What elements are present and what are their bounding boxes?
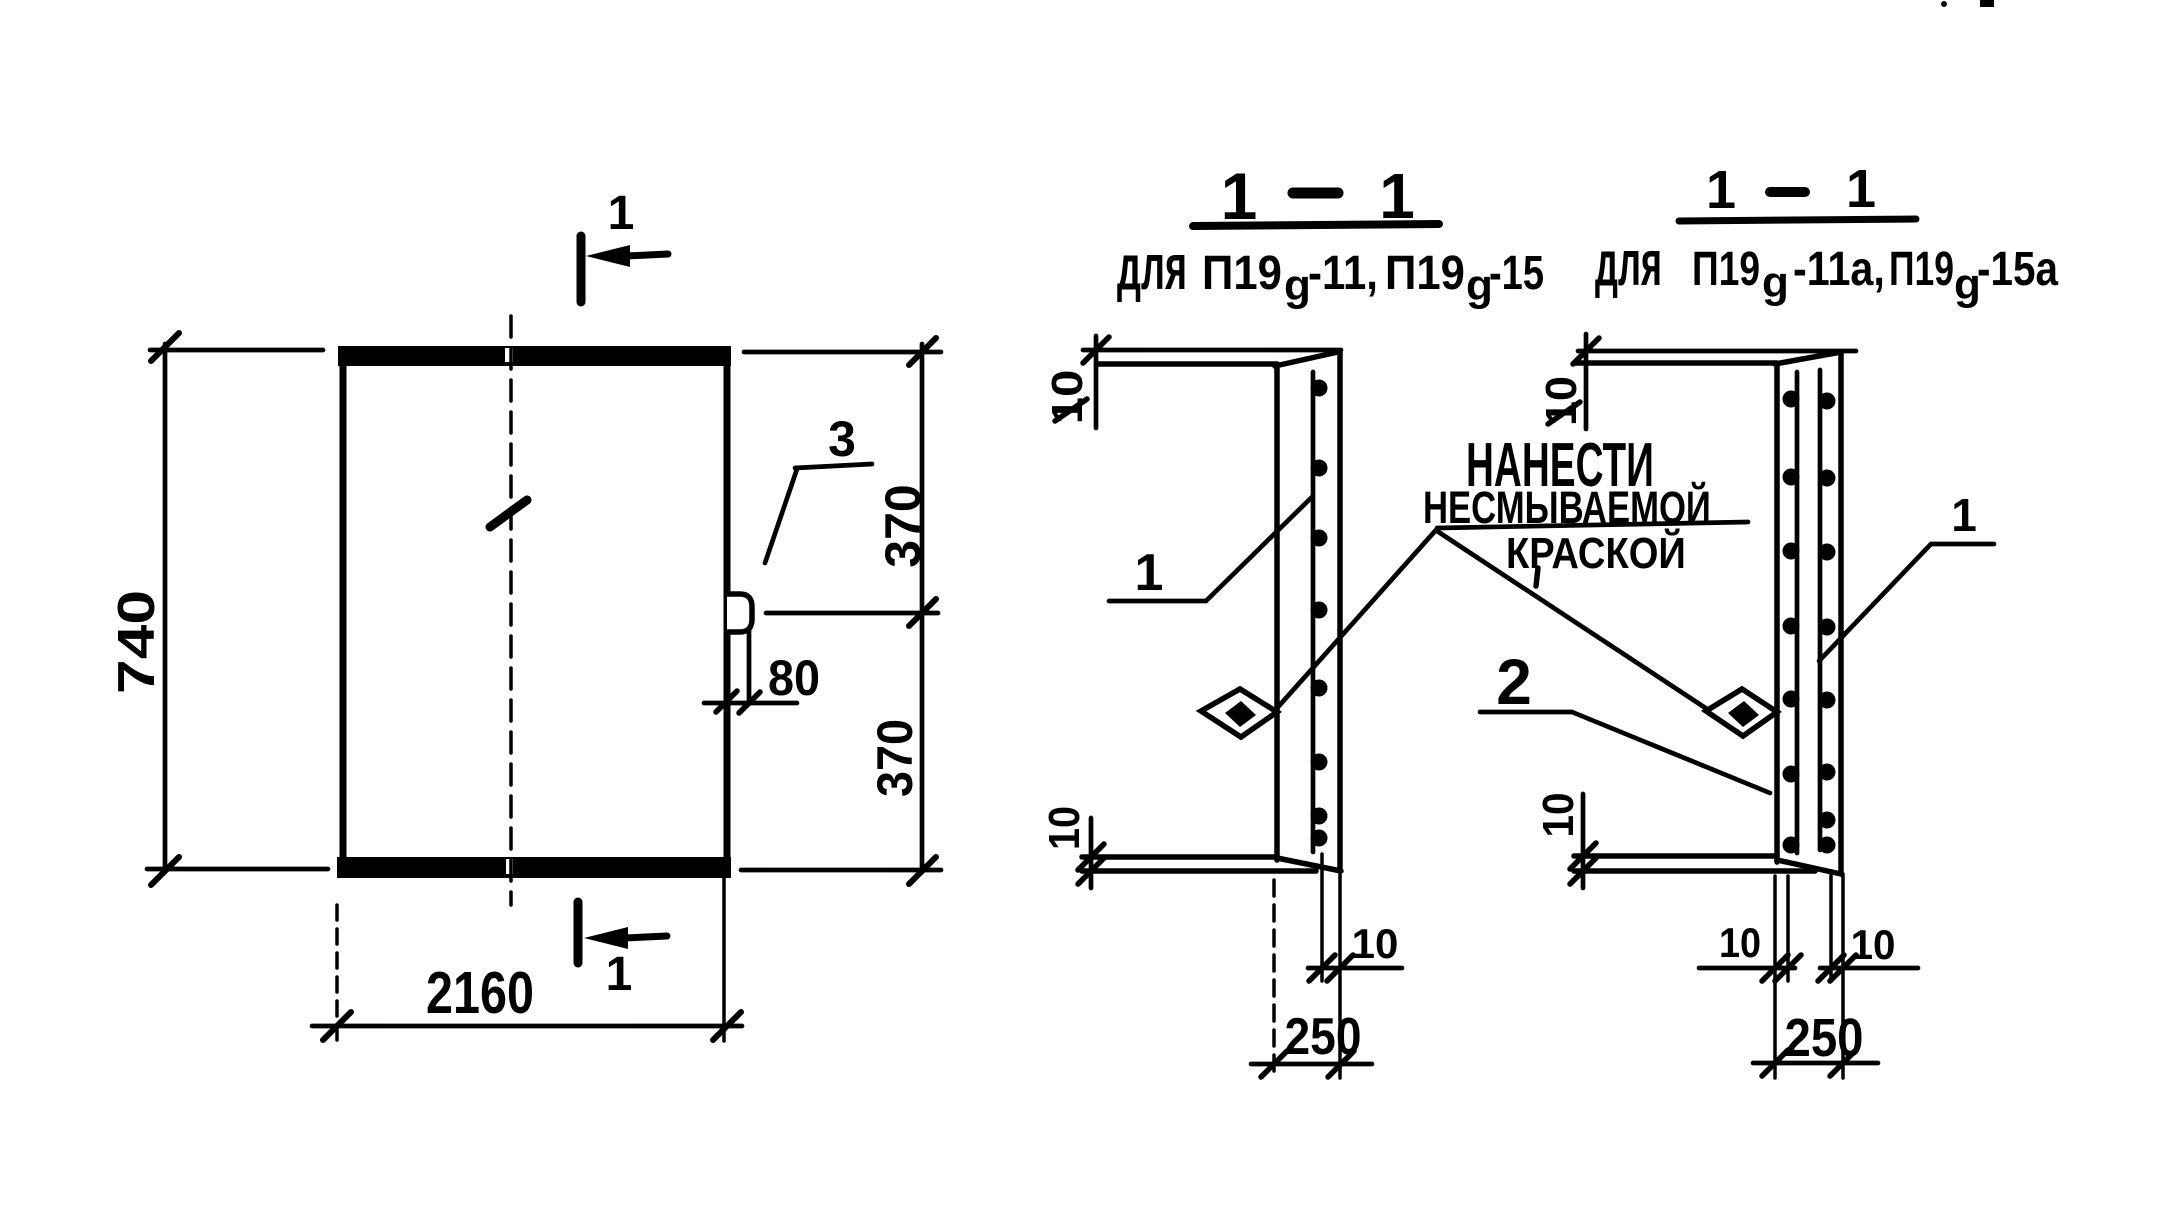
svg-text:80: 80 [768,651,820,707]
sec1 dim 10 bottom: arrow right [1327,955,1353,981]
sec1 dim 10 bottom-left: arrow lower [1078,858,1104,884]
dimension 2160 arrow left [323,1012,351,1040]
dimension 740 arrow bottom [151,857,179,885]
sec2 dim 250: arrow right [1830,1050,1856,1076]
svg-text:1: 1 [1846,159,1876,219]
dimension 370 middle extension [766,611,938,616]
dimension 80 tick line [704,701,797,706]
section mark 1 bottom: arrow [584,927,667,949]
sec2 dim 10 bottom-right pair: arrow a [1818,955,1844,981]
sec2 top dimension line [1578,349,1856,354]
svg-text:740: 740 [108,590,166,694]
section header 1-1 (left): underline [1193,224,1439,226]
note stray tick below КРАСКОЙ [1536,568,1538,586]
svg-text:КРАСКОЙ: КРАСКОЙ [1506,528,1686,577]
dimension 80 arrow left [716,691,737,712]
sec1 label 1: leader diagonal [1206,497,1312,601]
sec1 web bottom edge [1277,858,1341,871]
svg-text:g: g [1284,261,1311,310]
svg-text:для: для [1595,228,1662,299]
svg-text:370: 370 [868,719,924,797]
svg-text:П19: П19 [1385,245,1465,299]
note leader to left diamond [1278,530,1436,707]
sec2 plate top edge [1775,352,1841,364]
sec2 rebar-left extension below [1786,876,1790,981]
sec2 dim 10 bottom-left: arrow upper [1570,843,1596,869]
svg-text:П19: П19 [1202,245,1282,299]
sec2 rebar line left [1795,372,1800,853]
dimension 370 top extension [744,350,941,355]
svg-text:-11а,: -11а, [1793,242,1885,296]
sec2 bottom plate upper line [1574,853,1775,859]
sec2 web-left extension below [1773,876,1777,1078]
dimension 370 arrow middle [909,599,936,626]
sec1 dim 10 bottom-left: extension line [1089,818,1094,888]
svg-text:10: 10 [1042,370,1091,425]
section mark 1 bottom: cut line [574,902,583,963]
svg-text:2160: 2160 [426,961,534,1027]
sec1 rebar line [1311,372,1316,852]
sec1 dim 10 bottom: line [1308,966,1402,971]
sec2 web-right extension below [1841,874,1845,1078]
sec2 web right line [1838,352,1844,874]
svg-text:П19: П19 [1889,242,1954,295]
dimension 740 top extension [150,348,323,353]
svg-text:10: 10 [1851,921,1896,968]
dimension 370 bottom extension [741,868,941,873]
svg-text:1: 1 [1706,160,1736,220]
sec2 dim 10 bottom-right pair: arrow b [1830,955,1856,981]
sec2 top plate lower line [1574,360,1777,366]
section header subtitle (right): для П19д-11а, П19д-15а [1595,228,2058,309]
svg-text:П19: П19 [1692,243,1760,297]
dimension 80 arrow right [739,692,760,713]
sec1 rebar extension below [1320,854,1324,981]
svg-text:g: g [1762,258,1789,307]
sec2 rebar-right extension below [1829,874,1833,981]
sec2 dim 10 top-left: arrow lower [1548,402,1580,424]
sec1 bottom plate lower line [1082,868,1316,874]
panel outline (plan view) top edge [338,346,731,366]
sec2 dim 10 bottom-left pair: arrow b [1775,955,1801,981]
sec2 dim 10 bottom-left pair: line [1699,966,1795,971]
sec2 bottom plate lower line [1574,868,1815,874]
svg-text:-11,: -11, [1308,245,1378,299]
lifting hook notch on right edge [727,594,752,632]
sec2 rebar line right [1818,370,1823,850]
dimension 370 arrow bottom [909,857,936,884]
sec1 dim 10 top-left: arrow upper [1083,337,1109,363]
svg-text:250: 250 [1285,1009,1362,1066]
sec1 bottom plate upper line [1082,854,1274,860]
dimension 2160 right extension [722,877,726,1041]
dimension 2160 arrow right [713,1012,741,1040]
note text underline [1437,522,1748,528]
dimension 740 arrow top [151,333,179,361]
sec1 dim 10 bottom: arrow left [1309,955,1335,981]
svg-text:370: 370 [875,484,931,567]
dimension 2160 line [312,1024,742,1029]
svg-text:1: 1 [1135,544,1164,602]
svg-text:1: 1 [1951,489,1977,541]
sec1 dim 250: arrow left [1261,1051,1287,1077]
scan specks top right [1941,0,1994,7]
sec2 label 1: leader diagonal [1819,544,1931,661]
sec2 rebar dots right [1819,393,1836,854]
section header 1-1 (left): dash [1293,188,1338,199]
sec1 dim 10 top-left: arrow lower [1055,399,1087,421]
sec1 dim 250: line [1251,1062,1372,1067]
sec1 plate top edge [1275,352,1338,366]
centerline break mark [490,500,527,527]
dimension 370 arrow top [909,338,936,365]
sec1 top dimension line [1083,348,1341,353]
sec2 label 2: underline [1480,710,1572,715]
svg-text:250: 250 [1785,1007,1864,1068]
sec1 web-left extension below (dashed) [1272,880,1276,1078]
svg-text:-15а: -15а [1977,243,2058,296]
section header subtitle (left): для П19д-11, П19д-15 [1117,232,1544,310]
dimension 370/370 line [920,344,925,872]
svg-text:для: для [1117,232,1187,304]
dimension 80 vertical line [747,630,752,702]
dimension 740 bottom extension [147,867,328,872]
section mark 1 top: arrow [586,245,668,267]
sec2 label 2: leader diagonal [1572,712,1770,793]
sec1 web-right extension below [1338,874,1342,1078]
label 3 underline [795,464,872,468]
section header 1-1 (right): underline [1679,219,1916,221]
note leader to right diamond [1437,531,1707,709]
svg-text:10: 10 [1719,920,1761,966]
svg-text:1: 1 [608,187,635,240]
panel outline left edge [340,350,347,872]
section mark 1 top: cut line [577,236,586,302]
sec2 dim 250: arrow left [1762,1050,1788,1076]
dimension 740 line [163,344,168,872]
svg-text:2: 2 [1496,646,1532,718]
svg-text:10: 10 [1039,806,1088,850]
svg-text:10: 10 [1352,920,1399,967]
sec1 mark diamond [1201,689,1277,737]
sec2 web left line [1774,364,1780,862]
label 3 leader [765,469,797,563]
svg-text:1: 1 [606,948,633,1001]
sec1 web right line [1337,352,1343,871]
panel outline right edge [724,350,731,872]
sec1 dim 10 top-left: extension line [1094,336,1099,428]
sec1 web left line [1274,364,1280,860]
sec2 dim 250: line [1753,1061,1878,1066]
svg-text:3: 3 [828,411,856,467]
sec2 dim 10 bottom-right pair: line [1820,966,1918,971]
sec2 rebar dots left [1783,391,1800,854]
panel outline bottom edge [337,857,731,878]
sec2 dim 10 bottom-left: extension line [1581,794,1586,888]
panel centerline (dashed) [509,316,513,905]
sec2 label 1: leader horizontal [1931,542,1994,547]
sec2 dim 10 top-left: arrow upper [1573,338,1599,364]
svg-text:10: 10 [1533,792,1582,837]
sec2 dim 10 bottom-left: arrow lower [1570,858,1596,884]
sec2 web bottom edge [1777,860,1841,874]
sec1 rebar dots [1311,380,1328,847]
sec1 top plate lower line [1097,361,1277,367]
section header 1-1 (right): dash [1770,187,1805,197]
dimension 2160 left extension (dashed) [335,905,339,1041]
svg-text:-15: -15 [1489,247,1544,300]
sec1 dim 250: arrow right [1328,1051,1354,1077]
svg-text:10: 10 [1537,376,1586,426]
sec2 mark diamond [1706,689,1777,736]
sec1 label 1: leader horizontal [1109,599,1206,604]
sec2 dim 10 bottom-left pair: arrow a [1762,955,1788,981]
sec2 dim 10 top-left: extension line [1584,334,1589,429]
sec1 dim 10 bottom-left: arrow upper [1078,844,1104,870]
